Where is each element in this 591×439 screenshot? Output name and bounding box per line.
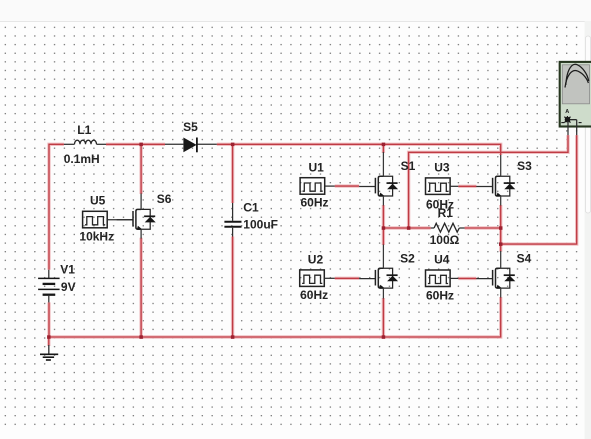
oscilloscope XSC1 <box>560 62 591 127</box>
wire: U1 pin <box>325 185 335 187</box>
svg-text:60Hz: 60Hz <box>301 195 329 209</box>
junction nodes <box>47 143 502 339</box>
lead: S2 drain black <box>382 245 384 269</box>
diode S5 <box>165 138 217 153</box>
junction S6 source at bottom rail <box>139 335 143 339</box>
lead: S1 drain black <box>382 152 384 176</box>
svg-text:U5: U5 <box>90 193 106 207</box>
switch S2 <box>359 268 398 288</box>
wire: U4 pin <box>450 277 458 279</box>
svg-text:60Hz: 60Hz <box>426 197 454 211</box>
svg-text:S5: S5 <box>183 120 198 134</box>
svg-text:S3: S3 <box>517 159 532 173</box>
svg-text:A: A <box>565 109 569 115</box>
switch S6 <box>117 209 156 229</box>
junction V1/ground at bottom rail <box>47 335 51 339</box>
svg-text:U2: U2 <box>308 252 324 266</box>
svg-text:60Hz: 60Hz <box>300 288 328 302</box>
switch S1 <box>359 176 398 196</box>
wire: U2 pin <box>324 277 334 279</box>
lead: scope A terminal black <box>567 121 569 135</box>
switch S4 <box>476 268 515 288</box>
lead: S3 drain black <box>500 155 502 176</box>
lead: S6 source black stub <box>140 229 142 238</box>
lead: scope B terminal black <box>576 120 578 135</box>
source U3 <box>426 178 451 195</box>
lead: S3 source black <box>500 196 502 206</box>
svg-text:U3: U3 <box>434 160 450 174</box>
wire: U5 to S6 gate <box>107 219 133 221</box>
svg-text:C1: C1 <box>243 200 259 214</box>
source U1 <box>300 178 325 195</box>
svg-text:L1: L1 <box>77 123 91 137</box>
inductor L1 <box>64 140 106 144</box>
svg-text:0.1mH: 0.1mH <box>64 152 100 166</box>
scrollbar strip <box>585 21 591 439</box>
switch S3 <box>476 176 515 196</box>
lead: S4 source black <box>500 288 502 297</box>
ground <box>40 345 58 360</box>
svg-text:U1: U1 <box>309 161 325 175</box>
lead: S1 source black <box>382 196 384 206</box>
svg-text:S2: S2 <box>400 251 415 265</box>
svg-text:V1: V1 <box>60 262 75 276</box>
svg-text:S1: S1 <box>401 159 416 173</box>
svg-text:S6: S6 <box>157 192 172 206</box>
junction R1 right at S3/S4 midpoint <box>499 226 503 230</box>
lead: S6 drain black stub <box>140 194 142 210</box>
resistor R1 <box>431 223 465 232</box>
svg-text:100Ω: 100Ω <box>430 233 460 247</box>
junction node B scope tap <box>499 242 503 246</box>
source U4 <box>426 270 451 287</box>
svg-text:U4: U4 <box>434 252 450 266</box>
wires (halo pass) <box>49 135 577 346</box>
junction node A (S1/S2 midpoint) <box>382 226 386 230</box>
lead: S2 source black <box>382 288 384 298</box>
junction C1 bottom at bottom rail <box>231 335 235 339</box>
junction S1 drain at top rail <box>382 143 386 147</box>
capacitor C1 <box>224 203 241 237</box>
junction S2 source at bottom rail <box>382 335 386 339</box>
battery V1 <box>38 270 60 303</box>
wire: U3 pin <box>450 185 458 187</box>
wires (core pass) <box>49 135 577 346</box>
junction C1 top at top rail <box>231 143 235 147</box>
junction S6 drain at top rail <box>139 143 143 147</box>
svg-text:S4: S4 <box>517 252 532 266</box>
source U2 <box>300 270 325 287</box>
svg-text:9V: 9V <box>61 280 76 294</box>
junction scope A tap on R1 wire <box>407 226 411 230</box>
lead: S4 drain black <box>500 251 502 268</box>
source U5 <box>83 211 108 228</box>
svg-text:100uF: 100uF <box>243 217 278 231</box>
svg-text:10kHz: 10kHz <box>79 230 114 244</box>
svg-text:60Hz: 60Hz <box>426 288 454 302</box>
